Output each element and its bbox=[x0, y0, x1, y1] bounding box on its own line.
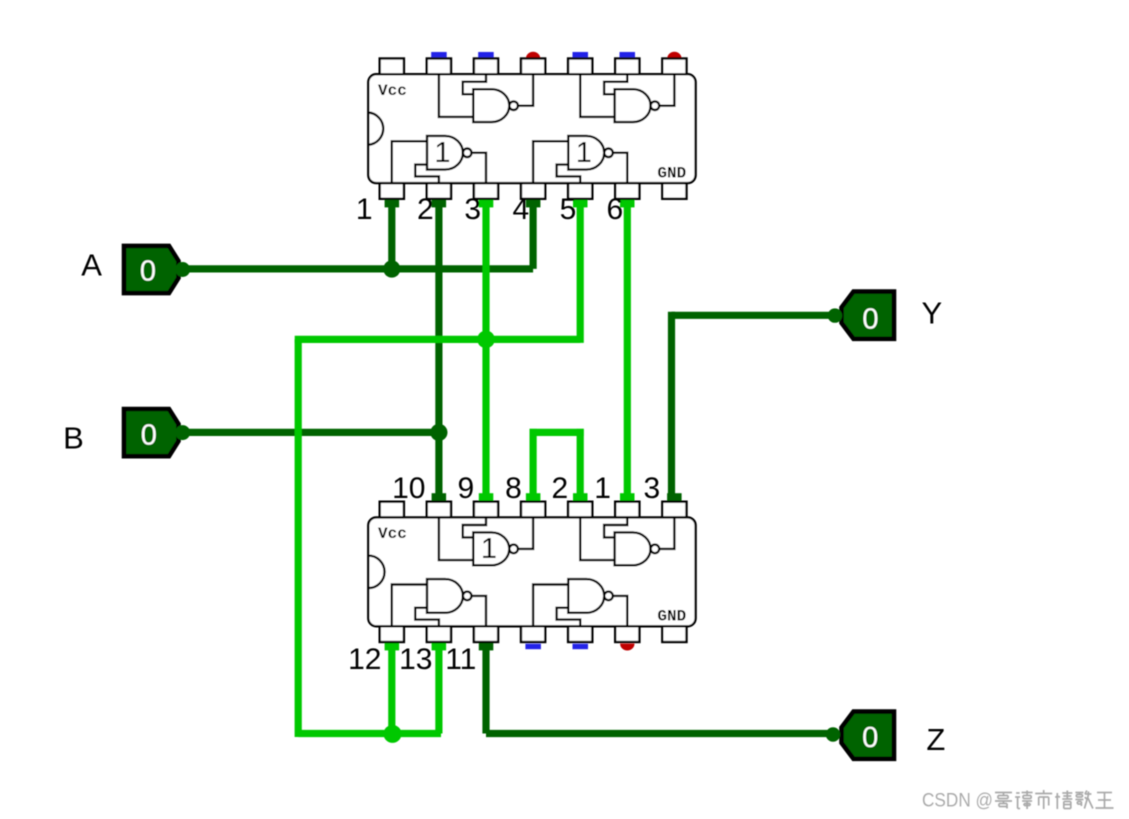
blue input indicator, top pin 6 bbox=[620, 52, 636, 57]
blue input indicator, top pin 3 bbox=[478, 52, 494, 57]
watermark glyph 5 bbox=[1075, 791, 1093, 809]
IC pins top row bbox=[380, 502, 404, 518]
svg-text:4: 4 bbox=[513, 193, 530, 226]
svg-text:0: 0 bbox=[862, 303, 878, 335]
blue input indicator, top pin 5 bbox=[573, 52, 589, 57]
NAND gate upper left bbox=[439, 74, 533, 122]
svg-text:3: 3 bbox=[464, 193, 481, 226]
IC2 bottom pin numbers bbox=[348, 643, 476, 676]
svg-text:CSDN @: CSDN @ bbox=[922, 789, 993, 811]
svg-text:1: 1 bbox=[356, 193, 373, 226]
svg-text:0: 0 bbox=[141, 419, 157, 451]
red output indicator, bottom pin 6 bbox=[620, 644, 634, 651]
IC body bbox=[368, 517, 695, 626]
NAND gate lower left bbox=[392, 136, 486, 183]
blue input indicator, top pin 2 bbox=[431, 52, 447, 57]
NAND gate upper left bbox=[439, 517, 533, 565]
svg-text:Vcc: Vcc bbox=[378, 525, 407, 543]
svg-text:1: 1 bbox=[481, 533, 497, 565]
NAND gate lower left bbox=[392, 579, 486, 626]
NAND gate upper right bbox=[580, 74, 674, 122]
wire Y net: IC2 pin 3 to flag Y bbox=[667, 312, 835, 502]
svg-text:9: 9 bbox=[458, 472, 475, 505]
svg-text:3: 3 bbox=[644, 472, 661, 505]
svg-text:0: 0 bbox=[140, 256, 156, 288]
output flag Y bbox=[828, 292, 894, 339]
red output indicator, top pin 4 bbox=[526, 52, 540, 59]
watermark glyph 3 bbox=[1035, 790, 1052, 809]
input switch B bbox=[124, 409, 190, 456]
NAND gate lower right bbox=[533, 136, 627, 183]
svg-text:B: B bbox=[63, 421, 84, 456]
wire A net: switch A to IC1 pins 1 and 4 bbox=[186, 199, 540, 273]
IC pins top row bbox=[380, 59, 404, 75]
wire B net: switch B to IC1 pin 2 and IC2 pin 10 bbox=[186, 199, 446, 502]
junction dot bright net bottom bbox=[384, 725, 402, 743]
watermark CSDN bbox=[922, 789, 1114, 812]
junction dot on B net bbox=[430, 424, 447, 441]
wire bright net2: IC1 pin 6 to IC2 pin 1 bbox=[620, 199, 635, 502]
wire bright net: IC1 pins 3,5 - IC2 pins 9,12,13 bbox=[295, 199, 588, 737]
watermark glyph 1 bbox=[995, 793, 1012, 809]
wire Z net: IC2 pin 11 to flag Z bbox=[479, 642, 833, 734]
svg-text:A: A bbox=[81, 247, 102, 282]
svg-text:GND: GND bbox=[657, 164, 686, 182]
IC2 top pin numbers bbox=[392, 472, 660, 505]
IC1 pin numbers 1-6 bbox=[356, 193, 623, 226]
junction dot on A net at pin1 column bbox=[383, 260, 400, 277]
watermark glyph 4 bbox=[1055, 791, 1072, 810]
NAND gate lower right bbox=[533, 579, 627, 626]
svg-text:Z: Z bbox=[926, 722, 945, 757]
svg-text:2: 2 bbox=[551, 472, 568, 505]
svg-text:8: 8 bbox=[505, 472, 522, 505]
svg-text:2: 2 bbox=[417, 193, 434, 226]
svg-text:6: 6 bbox=[606, 193, 623, 226]
svg-text:11: 11 bbox=[445, 643, 476, 676]
blue input indicator, bottom pin 4 bbox=[525, 644, 541, 649]
output flag Z bbox=[826, 712, 894, 759]
watermark glyph 6 bbox=[1096, 793, 1114, 809]
NAND gate upper right bbox=[580, 517, 674, 565]
svg-text:10: 10 bbox=[392, 472, 425, 505]
svg-text:Y: Y bbox=[922, 295, 943, 330]
svg-text:12: 12 bbox=[348, 643, 381, 676]
svg-text:GND: GND bbox=[657, 608, 686, 626]
svg-text:13: 13 bbox=[399, 643, 432, 676]
IC left-edge notch bbox=[368, 113, 383, 145]
IC pins bottom row bbox=[380, 183, 404, 199]
svg-text:1: 1 bbox=[576, 137, 592, 169]
svg-text:1: 1 bbox=[594, 472, 611, 505]
wire staple net: IC2 pin 8 to pin 2 bbox=[526, 429, 588, 502]
input switch A bbox=[124, 246, 190, 293]
svg-text:Vcc: Vcc bbox=[378, 82, 407, 100]
svg-text:1: 1 bbox=[434, 137, 450, 169]
red output indicator, top pin 7 bbox=[667, 52, 681, 59]
svg-text:0: 0 bbox=[862, 722, 878, 754]
svg-text:5: 5 bbox=[560, 193, 577, 226]
watermark glyph 2 bbox=[1015, 791, 1033, 810]
IC body bbox=[368, 74, 695, 183]
junction dot bright net mid bbox=[477, 331, 495, 349]
IC left-edge notch bbox=[368, 556, 384, 589]
blue input indicator, bottom pin 5 bbox=[573, 644, 589, 649]
IC pins bottom row bbox=[380, 626, 404, 642]
